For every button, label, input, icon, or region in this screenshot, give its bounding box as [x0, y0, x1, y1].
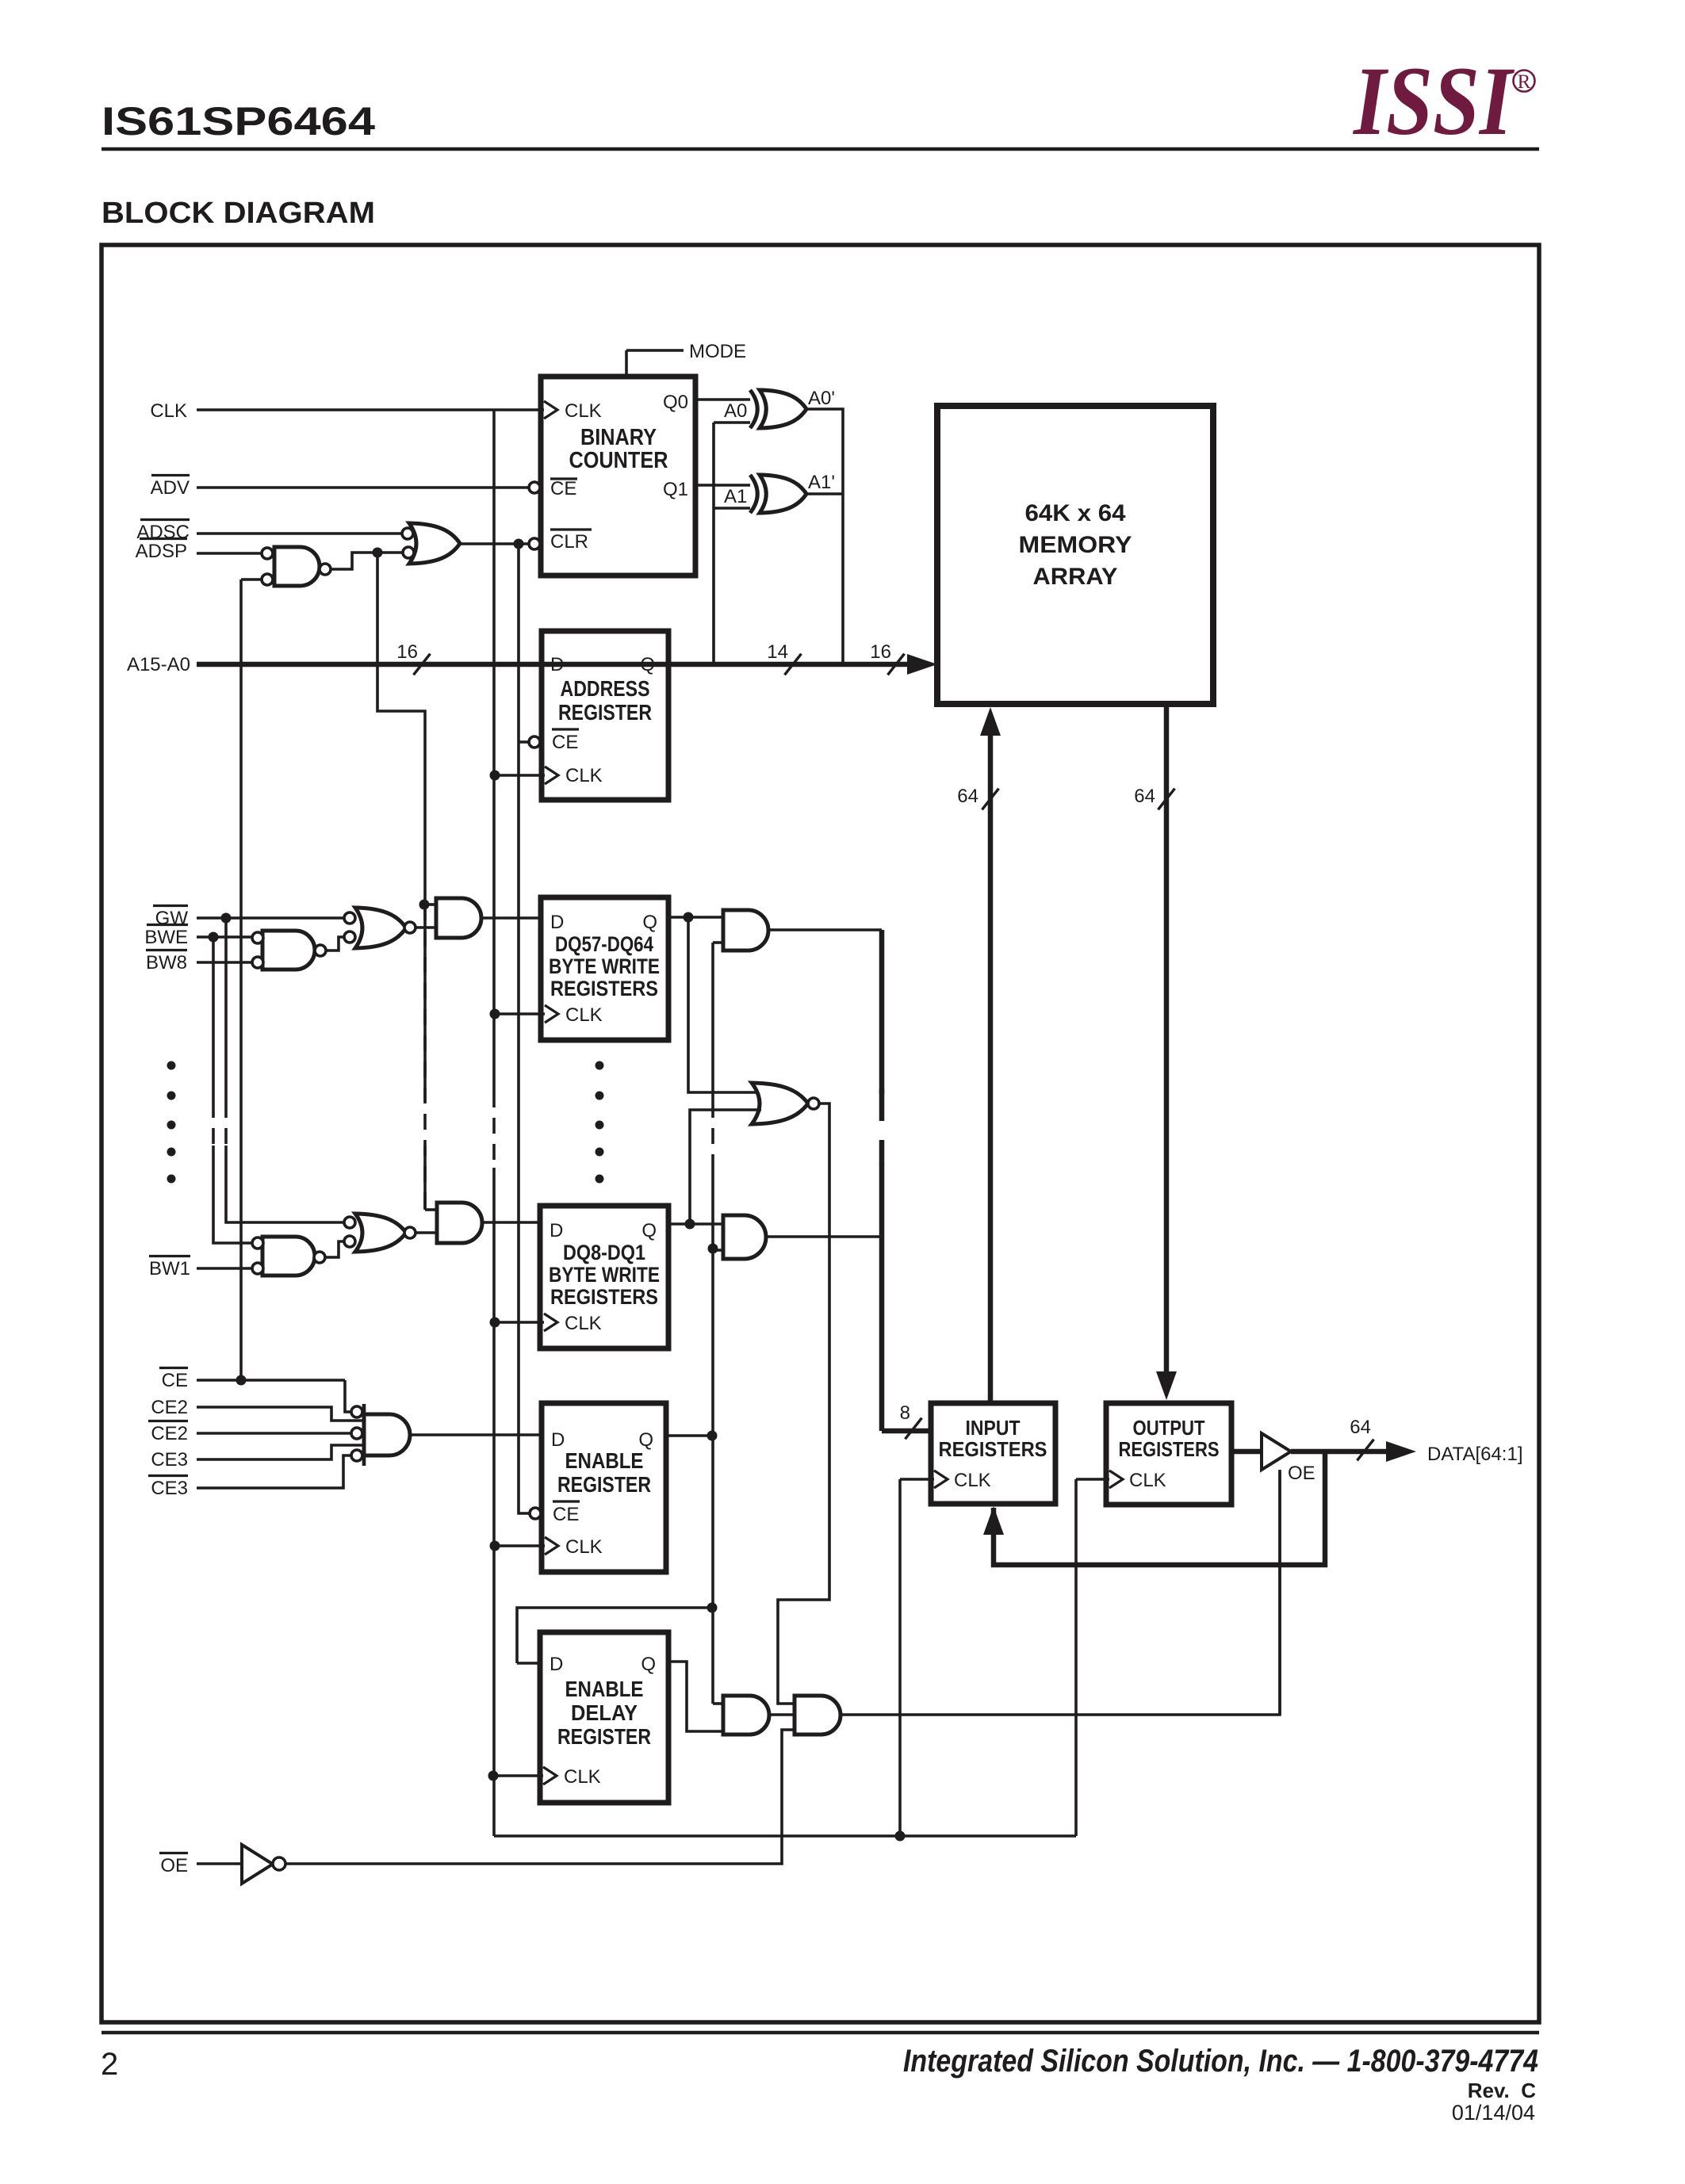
svg-text:CLK: CLK: [565, 1313, 602, 1334]
svg-text:REGISTERS: REGISTERS: [1119, 1437, 1220, 1461]
svg-text:R: R: [1518, 71, 1531, 93]
svg-text:CE2: CE2: [151, 1397, 188, 1418]
svg-text:CLK: CLK: [565, 765, 603, 786]
svg-text:ADDRESS: ADDRESS: [561, 676, 650, 701]
svg-text:CLK: CLK: [565, 400, 602, 422]
svg-text:ENABLE: ENABLE: [565, 1448, 644, 1473]
svg-text:16: 16: [870, 641, 891, 663]
svg-text:Q: Q: [640, 654, 655, 675]
svg-text:CLK: CLK: [565, 1536, 603, 1558]
svg-text:Q1: Q1: [663, 479, 688, 500]
svg-text:BWE: BWE: [144, 927, 188, 948]
svg-text:64K x 64: 64K x 64: [1025, 500, 1126, 526]
svg-text:2: 2: [101, 2047, 118, 2082]
svg-text:Q: Q: [641, 1220, 657, 1241]
svg-text:CLK: CLK: [954, 1470, 991, 1491]
svg-text:CLK: CLK: [1129, 1470, 1166, 1491]
svg-text:D: D: [550, 654, 564, 675]
svg-text:A1': A1': [808, 472, 835, 493]
svg-text:REGISTERS: REGISTERS: [550, 977, 658, 1000]
svg-text:ENABLE: ENABLE: [565, 1677, 644, 1701]
svg-text:REGISTERS: REGISTERS: [939, 1437, 1047, 1461]
svg-text:CE: CE: [550, 478, 576, 499]
svg-text:OE: OE: [1288, 1463, 1315, 1484]
svg-text:8: 8: [900, 1402, 910, 1424]
svg-text:A0': A0': [808, 388, 835, 409]
svg-text:A0: A0: [724, 400, 747, 422]
svg-text:Q0: Q0: [663, 392, 688, 413]
svg-text:01/14/04: 01/14/04: [1452, 2101, 1535, 2125]
svg-text:BYTE WRITE: BYTE WRITE: [549, 954, 660, 978]
svg-text:CE: CE: [553, 1504, 579, 1525]
svg-text:CLK: CLK: [564, 1766, 601, 1788]
svg-text:D: D: [551, 1429, 565, 1451]
svg-text:COUNTER: COUNTER: [569, 448, 668, 473]
svg-text:D: D: [550, 1654, 563, 1675]
svg-text:Integrated Silicon Solution, I: Integrated Silicon Solution, Inc. — 1-80…: [903, 2044, 1538, 2079]
svg-text:DQ57-DQ64: DQ57-DQ64: [555, 932, 653, 956]
svg-text:REGISTERS: REGISTERS: [550, 1285, 658, 1309]
svg-text:CLK: CLK: [565, 1004, 603, 1026]
svg-text:A1: A1: [724, 486, 747, 507]
svg-text:A15-A0: A15-A0: [127, 654, 190, 675]
svg-text:DQ8-DQ1: DQ8-DQ1: [563, 1241, 645, 1264]
svg-text:Q: Q: [638, 1429, 653, 1451]
svg-text:DELAY: DELAY: [571, 1700, 638, 1725]
svg-text:REGISTER: REGISTER: [557, 1472, 651, 1497]
svg-text:OE: OE: [160, 1855, 188, 1876]
svg-text:CE3: CE3: [151, 1478, 188, 1499]
svg-text:D: D: [550, 912, 564, 933]
svg-text:OUTPUT: OUTPUT: [1133, 1416, 1205, 1440]
svg-text:64: 64: [1350, 1417, 1371, 1438]
svg-text:INPUT: INPUT: [966, 1416, 1021, 1440]
svg-text:REGISTER: REGISTER: [557, 1724, 651, 1749]
svg-text:REGISTER: REGISTER: [558, 700, 652, 725]
svg-text:Q: Q: [642, 912, 657, 933]
svg-text:BW8: BW8: [146, 952, 187, 973]
svg-text:BW1: BW1: [149, 1258, 190, 1279]
svg-text:64: 64: [957, 786, 978, 807]
svg-text:Rev. C: Rev. C: [1468, 2079, 1536, 2102]
svg-text:Q: Q: [641, 1654, 656, 1675]
svg-text:DATA[64:1]: DATA[64:1]: [1427, 1444, 1523, 1465]
svg-text:CE2: CE2: [151, 1423, 188, 1444]
svg-text:CE: CE: [552, 732, 578, 753]
svg-text:D: D: [550, 1220, 563, 1241]
svg-text:CLR: CLR: [550, 531, 588, 553]
svg-text:CE3: CE3: [151, 1449, 188, 1471]
svg-text:MODE: MODE: [689, 341, 746, 362]
svg-text:BINARY: BINARY: [580, 425, 657, 450]
svg-text:BLOCK DIAGRAM: BLOCK DIAGRAM: [101, 197, 375, 230]
svg-text:16: 16: [396, 641, 418, 663]
svg-text:ADV: ADV: [151, 477, 190, 499]
svg-text:BYTE WRITE: BYTE WRITE: [549, 1263, 660, 1287]
svg-text:ISSI: ISSI: [1352, 47, 1515, 155]
svg-text:ADSP: ADSP: [136, 541, 187, 562]
svg-text:CLK: CLK: [150, 400, 187, 422]
svg-text:64: 64: [1134, 786, 1155, 807]
svg-text:CE: CE: [162, 1370, 188, 1391]
svg-text:ARRAY: ARRAY: [1033, 564, 1118, 590]
svg-text:MEMORY: MEMORY: [1019, 532, 1132, 558]
svg-text:IS61SP6464: IS61SP6464: [101, 99, 375, 143]
svg-text:14: 14: [767, 641, 788, 663]
